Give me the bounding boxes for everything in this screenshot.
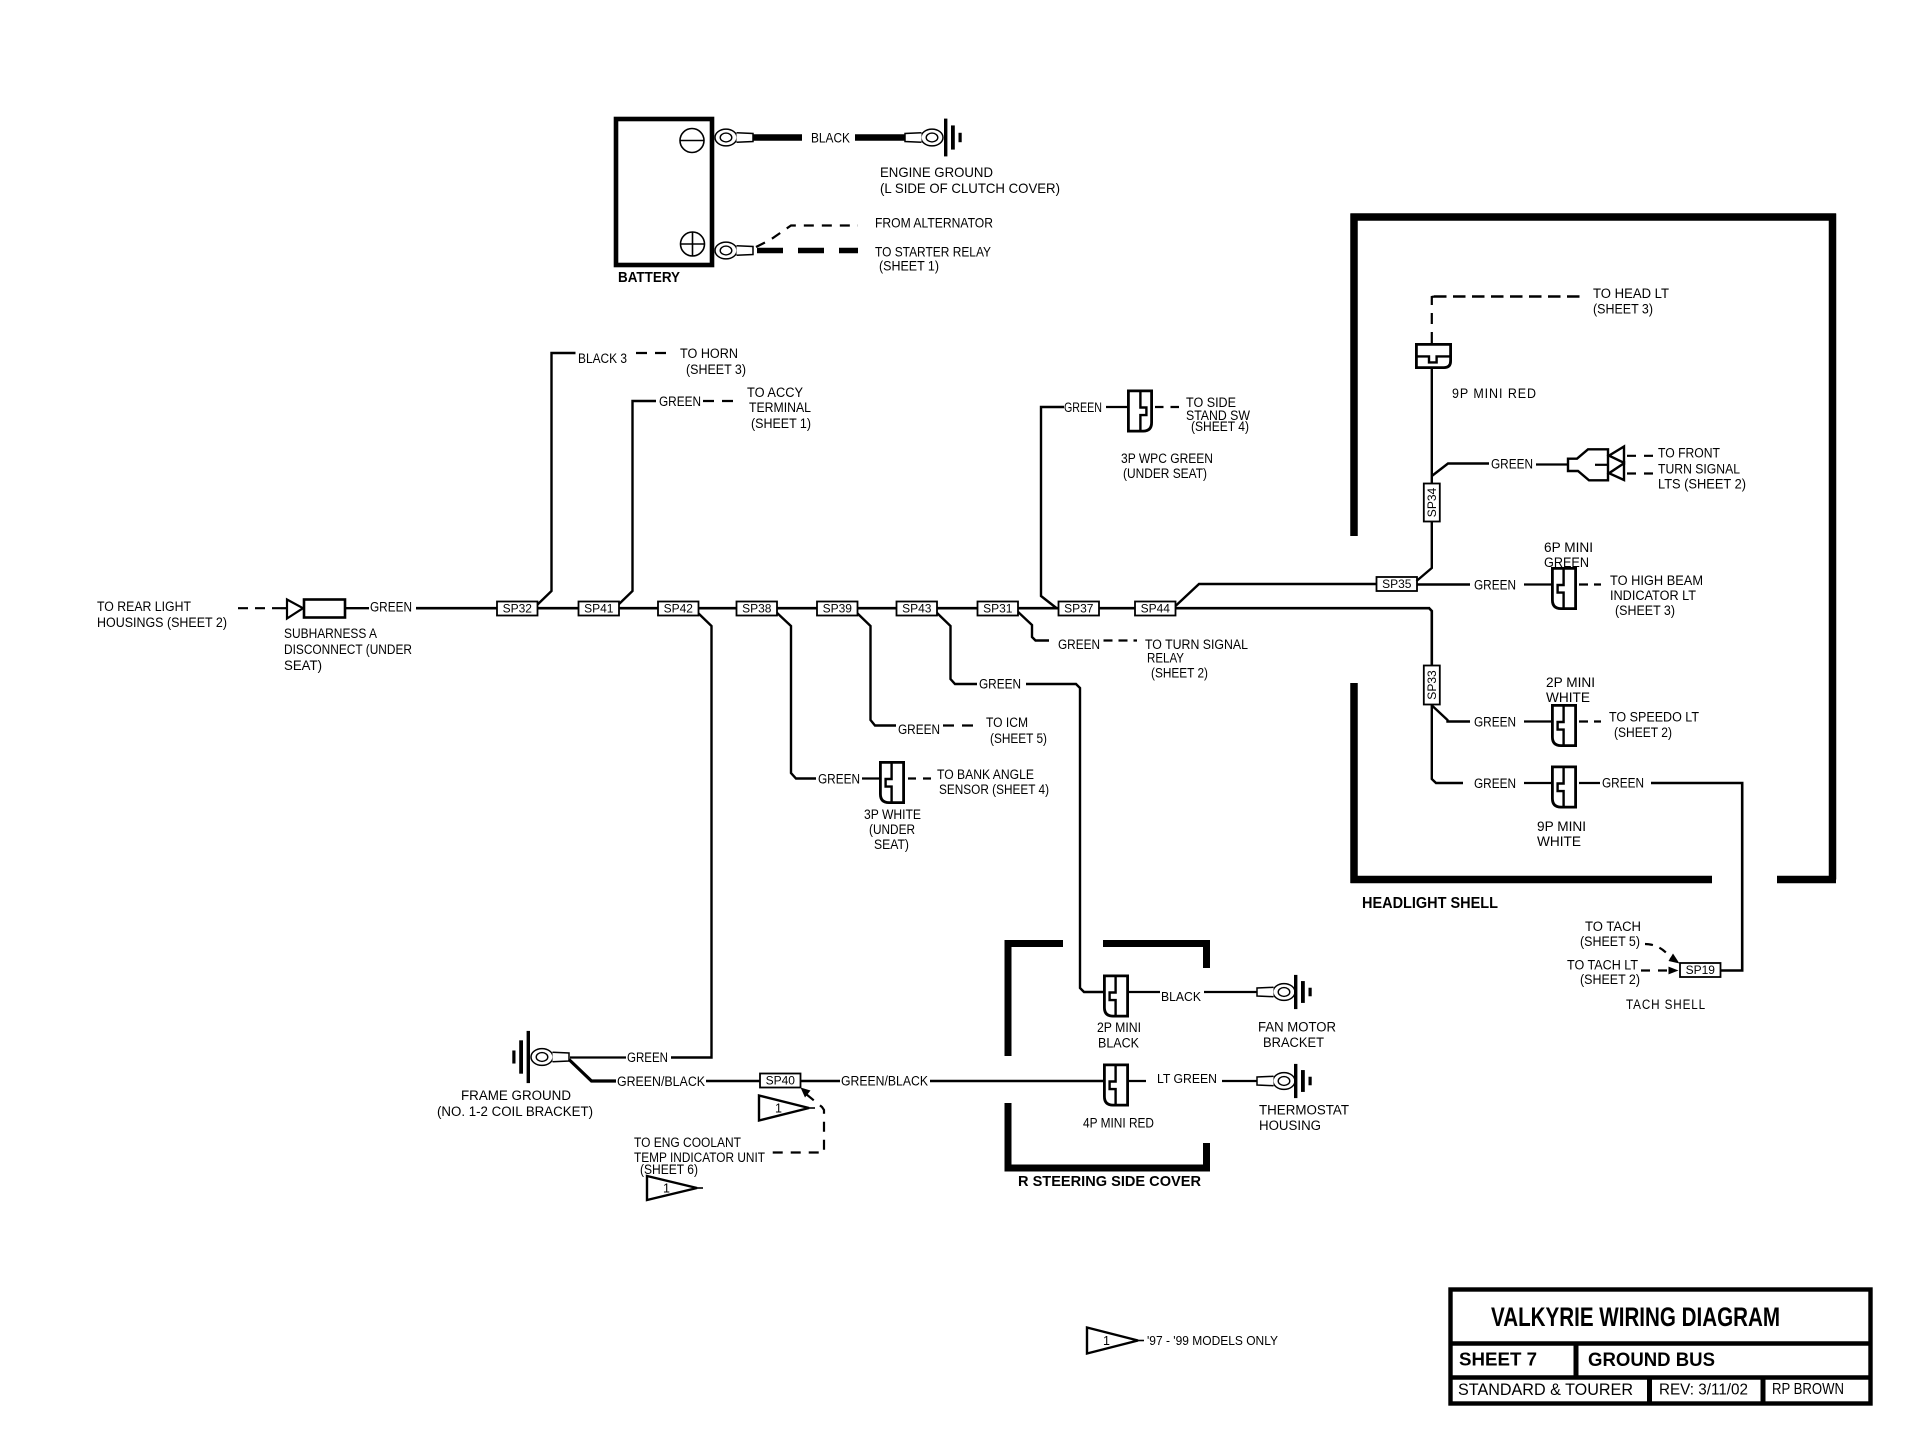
svg-text:SP35: SP35 xyxy=(1382,577,1412,591)
ground symbol frame ground xyxy=(512,1031,530,1083)
ground symbol engine ground xyxy=(944,119,962,157)
svg-text:GREEN: GREEN xyxy=(659,394,701,409)
splice SP19 xyxy=(1680,963,1721,977)
wire dashed SP40 to eng coolant temp indicator xyxy=(770,1088,824,1153)
label TO FRONT TURN SIGNAL LTS (SHEET 2) xyxy=(1658,446,1746,492)
wire from alternator (dashed) xyxy=(756,226,858,248)
wire SP44 to SP35 xyxy=(1176,584,1378,606)
svg-text:RP BROWN: RP BROWN xyxy=(1772,1381,1844,1398)
svg-text:SUBHARNESS A: SUBHARNESS A xyxy=(284,626,377,641)
wire SP34 up to 9P mini red xyxy=(1431,369,1433,484)
svg-text:(SHEET 2): (SHEET 2) xyxy=(1151,666,1208,681)
svg-text:HOUSINGS (SHEET 2): HOUSINGS (SHEET 2) xyxy=(97,615,227,630)
label TO ENG COOLANT TEMP INDICATOR UNIT (SHEET 6) xyxy=(634,1135,765,1177)
svg-text:SP39: SP39 xyxy=(823,602,853,616)
wire bus corner down to SP33 xyxy=(1429,608,1432,666)
splice SP38 xyxy=(737,602,778,616)
battery negative terminal xyxy=(680,129,704,153)
splice SP35 xyxy=(1377,577,1418,591)
svg-text:SP37: SP37 xyxy=(1064,602,1094,616)
splice SP40 xyxy=(760,1074,801,1088)
splice SP34 xyxy=(1424,484,1440,522)
svg-text:TO ENG COOLANT: TO ENG COOLANT xyxy=(634,1135,741,1150)
connector 9P MINI WHITE xyxy=(1552,767,1575,807)
label THERMOSTAT HOUSING xyxy=(1259,1103,1349,1134)
svg-text:BLACK: BLACK xyxy=(1161,990,1202,1004)
svg-text:(SHEET 5): (SHEET 5) xyxy=(1580,934,1640,949)
svg-text:VALKYRIE WIRING DIAGRAM: VALKYRIE WIRING DIAGRAM xyxy=(1491,1302,1780,1332)
svg-text:TO HEAD LT: TO HEAD LT xyxy=(1593,286,1669,301)
battery B1 xyxy=(616,119,712,265)
svg-text:LT GREEN: LT GREEN xyxy=(1157,1072,1217,1086)
note triangle 1 legend xyxy=(1087,1328,1144,1354)
svg-text:(SHEET 2): (SHEET 2) xyxy=(1580,972,1640,987)
wire GREEN/BLACK SP40 to 4P mini red xyxy=(801,1080,841,1082)
splice SP43 xyxy=(897,602,938,616)
svg-text:(UNDER: (UNDER xyxy=(869,822,915,837)
svg-text:FRAME GROUND: FRAME GROUND xyxy=(461,1088,571,1103)
connector 2P MINI WHITE xyxy=(1552,705,1575,745)
label TO HORN (SHEET 3) xyxy=(680,346,746,377)
svg-text:TO HIGH BEAM: TO HIGH BEAM xyxy=(1610,573,1703,588)
svg-text:SP41: SP41 xyxy=(584,602,614,616)
svg-text:ENGINE GROUND: ENGINE GROUND xyxy=(880,164,993,180)
svg-text:WHITE: WHITE xyxy=(1546,690,1590,705)
svg-text:BLACK 3: BLACK 3 xyxy=(578,351,627,366)
svg-text:(SHEET 1): (SHEET 1) xyxy=(879,258,939,274)
svg-text:GREEN: GREEN xyxy=(898,722,940,737)
wire GREEN to 3P WHITE connector xyxy=(862,777,879,779)
wire ground bus GREEN xyxy=(345,607,369,609)
label TO SPEEDO LT (SHEET 2) xyxy=(1609,710,1699,741)
svg-text:GREEN/BLACK: GREEN/BLACK xyxy=(841,1074,928,1089)
wire to rear light housings (dashed) xyxy=(238,607,281,609)
wire drop SP39 to ICM (GREEN) xyxy=(855,611,896,726)
splice SP41 xyxy=(579,602,620,616)
svg-text:TO ACCY: TO ACCY xyxy=(747,385,803,400)
label 2P MINI BLACK xyxy=(1097,1020,1141,1051)
svg-text:FROM ALTERNATOR: FROM ALTERNATOR xyxy=(875,215,993,231)
wire GREEN out of 9P mini white xyxy=(1579,782,1600,784)
svg-text:3P WPC GREEN: 3P WPC GREEN xyxy=(1121,451,1213,466)
svg-text:(SHEET 2): (SHEET 2) xyxy=(1614,725,1672,740)
svg-text:GROUND BUS: GROUND BUS xyxy=(1588,1350,1715,1371)
wire dashed to front turn signal lts xyxy=(1627,455,1656,457)
svg-text:GREEN: GREEN xyxy=(818,772,860,787)
svg-text:RELAY: RELAY xyxy=(1147,651,1184,666)
svg-text:(SHEET 3): (SHEET 3) xyxy=(1615,603,1675,618)
svg-text:'97 - '99 MODELS ONLY: '97 - '99 MODELS ONLY xyxy=(1147,1333,1278,1348)
svg-text:SEAT): SEAT) xyxy=(284,658,322,673)
ring terminal fan motor bracket xyxy=(1257,984,1295,1001)
svg-text:1: 1 xyxy=(775,1102,782,1116)
svg-text:GREEN: GREEN xyxy=(1058,637,1100,652)
connector 2P MINI BLACK xyxy=(1104,976,1127,1016)
wire riser SP37 to side stand switch (GREEN) xyxy=(1041,407,1064,609)
svg-text:TO REAR LIGHT: TO REAR LIGHT xyxy=(97,599,191,614)
svg-text:(SHEET 1): (SHEET 1) xyxy=(751,416,811,431)
svg-text:(SHEET 4): (SHEET 4) xyxy=(1191,419,1249,434)
label TO STARTER RELAY (SHEET 1) xyxy=(875,244,992,274)
svg-text:TO ICM: TO ICM xyxy=(986,715,1028,730)
label SUBHARNESS A DISCONNECT (UNDER SEAT) xyxy=(284,626,412,673)
svg-text:GREEN: GREEN xyxy=(1491,457,1533,472)
splice SP32 xyxy=(497,602,538,616)
wire dashed arrow to tach lt xyxy=(1641,967,1679,975)
svg-text:4P MINI RED: 4P MINI RED xyxy=(1083,1116,1154,1131)
label 6P MINI GREEN xyxy=(1544,540,1593,570)
wire dashed up from 9P mini red to head lt xyxy=(1432,297,1434,344)
note triangle 1 (SP40) xyxy=(759,1096,815,1121)
headlight shell enclosure xyxy=(1351,214,1837,884)
wire GREEN over to R steering side cover xyxy=(1026,684,1103,992)
svg-text:TO FRONT: TO FRONT xyxy=(1658,446,1720,461)
svg-text:TO HORN: TO HORN xyxy=(680,346,738,361)
svg-text:(SHEET 5): (SHEET 5) xyxy=(990,731,1047,746)
label TO TACH LT (SHEET 2) xyxy=(1567,958,1640,988)
wire SP35 to high beam indicator (GREEN) xyxy=(1417,583,1470,585)
splice SP33 xyxy=(1424,666,1440,705)
wire riser SP32 to horn (BLACK 3) xyxy=(536,353,576,606)
wire drop SP43 to 2P mini black (GREEN) xyxy=(935,611,977,684)
label TO TURN SIGNAL RELAY (SHEET 2) xyxy=(1145,637,1248,681)
wire SP35 up to SP34 xyxy=(1417,522,1432,581)
svg-text:1: 1 xyxy=(1103,1334,1110,1348)
wire branch to front turn signal (GREEN) xyxy=(1432,464,1489,477)
wire dashed to ICM xyxy=(943,724,977,726)
label TO SIDE STAND SW (SHEET 4) xyxy=(1186,395,1250,434)
splice SP39 xyxy=(817,602,858,616)
wire dashed to speedo lt xyxy=(1579,720,1601,722)
wire dashed arrow to tach (curved) xyxy=(1645,944,1680,964)
svg-text:GREEN: GREEN xyxy=(370,600,412,615)
wire drop SP31 to turn signal relay (GREEN) xyxy=(1016,610,1049,641)
label ENGINE GROUND (L SIDE OF CLUTCH COVER) xyxy=(880,164,1060,196)
svg-text:(SHEET 3): (SHEET 3) xyxy=(1593,302,1653,317)
ring terminal engine ground xyxy=(905,129,943,146)
wire dashed to side stand switch xyxy=(1155,406,1180,408)
wire dashed to high beam indicator lt xyxy=(1579,583,1601,585)
svg-text:HEADLIGHT SHELL: HEADLIGHT SHELL xyxy=(1362,895,1498,912)
svg-text:SEAT): SEAT) xyxy=(874,837,909,852)
svg-text:GREEN: GREEN xyxy=(1602,776,1644,791)
label TO ICM (SHEET 5) xyxy=(986,715,1047,746)
svg-text:LTS (SHEET 2): LTS (SHEET 2) xyxy=(1658,477,1746,492)
label TO REAR LIGHT HOUSINGS (SHEET 2) xyxy=(97,599,227,630)
label 9P MINI WHITE xyxy=(1537,819,1586,849)
svg-text:REV: 3/11/02: REV: 3/11/02 xyxy=(1659,1382,1748,1399)
wire GREEN/BLACK frame ground to SP40 xyxy=(569,1060,616,1082)
svg-text:(NO. 1-2 COIL BRACKET): (NO. 1-2 COIL BRACKET) xyxy=(437,1104,593,1119)
svg-text:2P MINI: 2P MINI xyxy=(1546,675,1595,690)
svg-text:WHITE: WHITE xyxy=(1537,834,1581,849)
R steering side cover enclosure xyxy=(1005,940,1210,1172)
svg-text:STANDARD & TOURER: STANDARD & TOURER xyxy=(1458,1380,1633,1399)
connector 3P WHITE (under seat) xyxy=(880,762,903,802)
wire GREEN to 3P WPC connector xyxy=(1106,406,1127,408)
svg-text:TACH SHELL: TACH SHELL xyxy=(1626,997,1706,1012)
svg-text:HOUSING: HOUSING xyxy=(1259,1118,1321,1133)
svg-text:TO TACH LT: TO TACH LT xyxy=(1567,958,1638,973)
svg-text:TERMINAL: TERMINAL xyxy=(749,400,811,415)
wire BLACK battery to engine ground xyxy=(753,134,802,141)
svg-text:2P MINI: 2P MINI xyxy=(1097,1020,1141,1035)
label FAN MOTOR BRACKET xyxy=(1258,1020,1336,1051)
label 2P MINI WHITE xyxy=(1546,675,1595,705)
svg-text:SHEET 7: SHEET 7 xyxy=(1459,1350,1537,1370)
wire dashed to bank angle sensor xyxy=(908,777,936,779)
svg-text:(SHEET 6): (SHEET 6) xyxy=(640,1162,698,1177)
svg-text:SENSOR (SHEET 4): SENSOR (SHEET 4) xyxy=(939,782,1049,797)
svg-text:TURN SIGNAL: TURN SIGNAL xyxy=(1658,462,1740,477)
svg-text:R STEERING SIDE COVER: R STEERING SIDE COVER xyxy=(1018,1173,1201,1190)
label TO BANK ANGLE SENSOR (SHEET 4) xyxy=(937,767,1049,797)
wire GREEN frame ground to label xyxy=(570,1056,626,1058)
wire dashed to turn signal relay xyxy=(1104,639,1138,641)
wire GREEN to tach shell SP19 xyxy=(1651,783,1742,971)
svg-text:SP33: SP33 xyxy=(1425,670,1439,700)
wire GREEN to turn signal connector xyxy=(1536,463,1568,465)
svg-text:(SHEET 3): (SHEET 3) xyxy=(686,362,746,377)
svg-text:GREEN: GREEN xyxy=(1474,578,1516,593)
label TO TACH (SHEET 5) xyxy=(1580,919,1641,949)
svg-text:GREEN: GREEN xyxy=(1064,400,1102,415)
splice SP42 xyxy=(658,602,699,616)
svg-text:TO SPEEDO LT: TO SPEEDO LT xyxy=(1609,710,1699,725)
svg-text:(UNDER SEAT): (UNDER SEAT) xyxy=(1123,466,1207,481)
connector 4P MINI RED xyxy=(1104,1065,1127,1105)
wire drop SP42 to frame ground (GREEN) xyxy=(671,611,712,1058)
svg-text:1: 1 xyxy=(663,1182,670,1196)
svg-text:GREEN: GREEN xyxy=(1474,715,1516,730)
title block xyxy=(1449,1290,1873,1404)
svg-text:BLACK: BLACK xyxy=(1098,1036,1139,1051)
connector subharness A disconnect xyxy=(281,600,345,619)
splice SP31 xyxy=(978,602,1019,616)
ground symbol fan motor bracket xyxy=(1294,975,1312,1009)
wire LT GREEN to thermostat housing xyxy=(1129,1080,1146,1082)
svg-text:DISCONNECT (UNDER: DISCONNECT (UNDER xyxy=(284,642,412,657)
label TO HIGH BEAM INDICATOR LT (SHEET 3) xyxy=(1610,573,1703,618)
svg-text:9P MINI RED: 9P MINI RED xyxy=(1452,386,1537,401)
ring terminal battery positive xyxy=(715,242,753,259)
label 3P WHITE (UNDER SEAT) xyxy=(864,807,921,852)
splice SP44 xyxy=(1135,602,1176,616)
svg-text:GREEN: GREEN xyxy=(1474,776,1516,791)
wire GREEN into 9P mini white xyxy=(1524,782,1552,784)
svg-text:TO BANK ANGLE: TO BANK ANGLE xyxy=(937,767,1034,782)
svg-text:FAN MOTOR: FAN MOTOR xyxy=(1258,1020,1336,1035)
wire SP33 down to 9P mini white (GREEN) xyxy=(1432,704,1463,783)
wire to starter relay (thick dashed) xyxy=(757,248,858,254)
svg-text:(L SIDE OF CLUTCH COVER): (L SIDE OF CLUTCH COVER) xyxy=(880,180,1060,196)
wire SP33 branch to speedo lt (GREEN) xyxy=(1433,706,1471,722)
svg-text:SP19: SP19 xyxy=(1686,963,1716,977)
label FRAME GROUND (NO. 1-2 COIL BRACKET) xyxy=(437,1088,593,1119)
ground symbol thermostat housing xyxy=(1294,1064,1312,1098)
svg-text:TO TACH: TO TACH xyxy=(1585,919,1641,934)
ring terminal frame ground xyxy=(531,1049,569,1066)
ring terminal battery negative xyxy=(715,129,753,146)
splice SP37 xyxy=(1059,602,1100,616)
svg-text:SP32: SP32 xyxy=(503,602,533,616)
label TO ACCY TERMINAL (SHEET 1) xyxy=(747,385,811,431)
wire drop SP38 to bank angle sensor (GREEN) xyxy=(775,611,816,779)
svg-text:INDICATOR LT: INDICATOR LT xyxy=(1610,588,1696,603)
wire dashed to horn xyxy=(636,352,669,354)
svg-text:6P MINI: 6P MINI xyxy=(1544,540,1593,555)
wire GREEN to 2P mini white xyxy=(1524,720,1552,722)
svg-text:THERMOSTAT: THERMOSTAT xyxy=(1259,1103,1349,1118)
note triangle 1 (coolant) xyxy=(647,1176,703,1200)
connector 9P MINI RED xyxy=(1416,344,1450,367)
svg-text:GREEN: GREEN xyxy=(627,1050,668,1065)
connector 6P MINI GREEN xyxy=(1552,568,1575,608)
svg-text:BLACK: BLACK xyxy=(811,131,850,146)
label TO HEAD LT (SHEET 3) xyxy=(1593,286,1669,317)
svg-text:SP43: SP43 xyxy=(902,602,932,616)
wire BLACK to fan motor bracket xyxy=(1129,991,1160,993)
wire dashed to accy terminal xyxy=(703,400,735,402)
svg-text:SP42: SP42 xyxy=(664,602,694,616)
battery positive terminal xyxy=(681,232,705,256)
connector 3P WPC GREEN xyxy=(1128,391,1151,431)
wire riser SP41 to accy terminal (GREEN) xyxy=(617,401,656,606)
svg-text:SP34: SP34 xyxy=(1425,487,1439,517)
svg-text:SP44: SP44 xyxy=(1141,602,1171,616)
svg-text:BATTERY: BATTERY xyxy=(618,270,680,286)
svg-text:SP31: SP31 xyxy=(983,602,1013,616)
svg-text:SP40: SP40 xyxy=(766,1074,796,1088)
svg-text:BRACKET: BRACKET xyxy=(1263,1035,1324,1050)
connector front turn signal bullet xyxy=(1568,447,1624,481)
label 3P WPC GREEN (UNDER SEAT) xyxy=(1121,451,1213,481)
svg-text:GREEN/BLACK: GREEN/BLACK xyxy=(617,1074,705,1089)
ring terminal thermostat housing xyxy=(1257,1073,1295,1090)
svg-text:SP38: SP38 xyxy=(742,602,772,616)
svg-text:3P WHITE: 3P WHITE xyxy=(864,807,921,822)
svg-text:9P MINI: 9P MINI xyxy=(1537,819,1586,834)
svg-text:GREEN: GREEN xyxy=(1544,555,1589,570)
svg-text:GREEN: GREEN xyxy=(979,677,1021,692)
